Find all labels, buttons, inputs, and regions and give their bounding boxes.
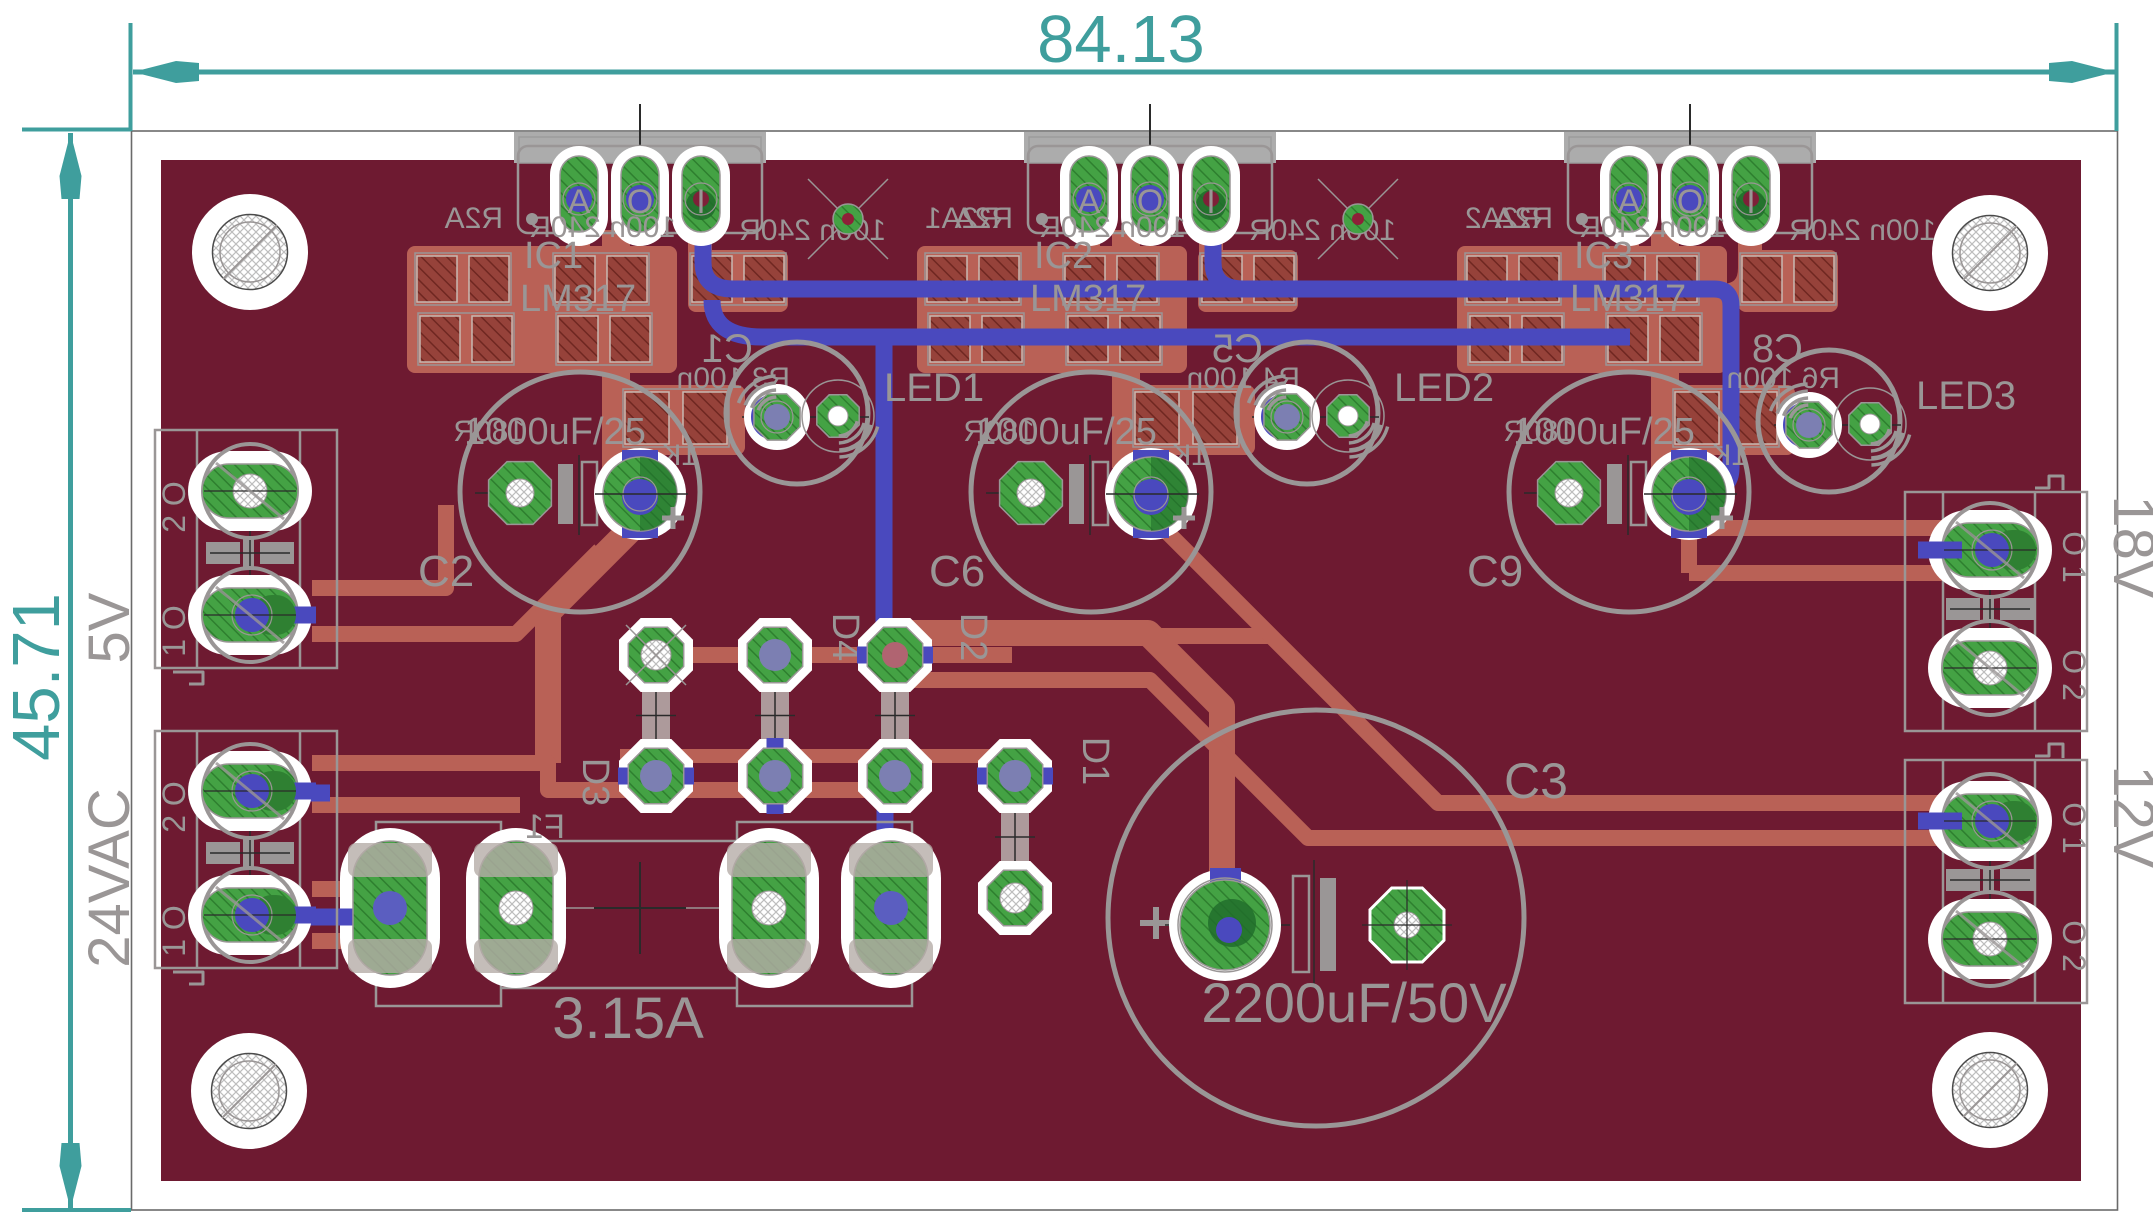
IC1 pin labels A O I	[568, 183, 706, 221]
svg-text:D1: D1	[1074, 737, 1116, 786]
C9 polarity marks	[1607, 455, 1646, 535]
wire C9+ stub down (top)	[1681, 500, 1697, 573]
12V bracket	[2035, 744, 2063, 758]
IC2 pin labels A O I	[1078, 183, 1216, 221]
24VAC pad 2	[188, 868, 316, 962]
LED1 reflector arcs	[739, 376, 878, 457]
via V2	[1318, 179, 1398, 259]
diode D4 body	[755, 677, 795, 754]
C6 polarity marks	[1069, 455, 1108, 535]
LED1 label	[884, 366, 984, 410]
wire 24VAC-2 stub b (top)	[312, 797, 520, 813]
IC2 pad A	[1070, 156, 1108, 232]
wire 12V pad1 stub	[1918, 813, 1992, 830]
svg-text:12V: 12V	[2101, 765, 2153, 869]
IC2 pad I	[1192, 156, 1230, 232]
connector label 12V	[2101, 765, 2153, 869]
diode D4 pad 1	[738, 618, 812, 692]
wire 24VAC-2 to fuse area a (top)	[312, 763, 886, 790]
LED3 anode pad	[1834, 388, 1906, 460]
wire 24VAC pad1 to fuse	[250, 909, 392, 926]
svg-text:LM317: LM317	[520, 278, 636, 320]
12V pin labels	[2056, 802, 2092, 972]
18V pad 1	[1924, 503, 2052, 597]
silk text R2A1 (mirrored)	[925, 202, 1000, 235]
horizontal dimension line 84.13	[133, 70, 2115, 75]
wire IC2 pad A stub (top)	[1078, 215, 1100, 258]
diode D2 body	[875, 677, 915, 754]
24VAC origin	[249, 829, 251, 877]
IC1 pad A	[560, 156, 598, 232]
diode D3 label	[574, 758, 616, 807]
12V pad 2	[1928, 892, 2052, 986]
IC1 pad O	[621, 156, 659, 232]
IC3 origin mark	[1689, 104, 1691, 168]
IC3 outline	[1568, 146, 1812, 233]
IC1 heatsink tab	[514, 132, 766, 163]
capacitor C2 outline circle	[460, 372, 700, 612]
capacitor C3 outline circle	[1108, 710, 1524, 1126]
wire bridge mid row (top)	[620, 749, 1008, 763]
IC2 value LM317	[1030, 278, 1146, 320]
wire bottom bus A IC1-out	[703, 233, 1731, 489]
wire IC2 pad I elbow (top)	[1211, 215, 1290, 296]
svg-text:1 O: 1 O	[156, 905, 192, 957]
wire D2 to C3+ (top, wide)	[905, 633, 1222, 890]
12V origin	[1989, 859, 1991, 901]
wire D3 bottom stub	[619, 768, 693, 785]
LED2 cathode pad	[1254, 384, 1320, 450]
silk text 180R IC2 (mirrored)	[963, 415, 1035, 448]
C3 plus symbol	[1140, 907, 1172, 939]
24VAC separator	[206, 839, 294, 867]
wire D1 top stub	[985, 768, 1048, 785]
copper patch under R/C cluster of IC3	[1457, 246, 1838, 455]
IC3 pad clearance	[1600, 146, 1780, 246]
diode D2 pad 2	[858, 739, 932, 813]
diode D3 body	[636, 677, 676, 754]
5V origin	[249, 529, 251, 577]
svg-text:100n 240R: 100n 240R	[529, 211, 676, 244]
C9 value 1000uF/25	[1513, 411, 1695, 453]
mounting hole top-right	[1932, 195, 2048, 311]
24VAC terminal outline	[155, 731, 337, 968]
IC3 value LM317	[1570, 278, 1686, 320]
IC2 outline	[1028, 146, 1272, 233]
via V1	[808, 179, 888, 259]
dimension extension line left (x)	[129, 23, 133, 131]
svg-text:3.15A: 3.15A	[552, 986, 704, 1051]
C6 value 1000uF/25	[975, 411, 1157, 453]
mounting hole bottom-left	[191, 1033, 307, 1149]
vertical dimension line 45.71	[68, 133, 73, 1209]
svg-text:1000uF/25: 1000uF/25	[464, 411, 646, 453]
svg-text:2 O: 2 O	[156, 781, 192, 833]
fuse F1 origin cross	[594, 862, 686, 954]
IC1 designator	[524, 235, 583, 277]
dimension extension line right (x)	[2115, 23, 2119, 131]
svg-text:100n 240R: 100n 240R	[1039, 211, 1186, 244]
dimension arrow up	[60, 133, 82, 199]
silk text 100n 240R right IC3 (mirrored)	[1789, 214, 1936, 247]
SMD pads 100n/240R cluster IC1	[415, 253, 786, 365]
24VAC pin labels	[156, 781, 192, 957]
18V pad 2	[1928, 621, 2052, 715]
silk text 100n 240R IC3 (mirrored)	[1579, 211, 1726, 244]
wire IC3 pad O to C9+ (top)	[1651, 230, 1679, 468]
IC2 pad O	[1131, 156, 1169, 232]
C6 positive pad	[1105, 448, 1199, 540]
SMD pads 100n/240R cluster IC2	[925, 253, 1296, 365]
silk text R2A2 (mirrored)	[1465, 202, 1540, 235]
svg-text:C8: C8	[1752, 327, 1803, 371]
dimension arrow right	[2049, 61, 2115, 83]
wire 24VAC-1 to fuse b (top)	[312, 933, 372, 949]
IC1 pad I	[682, 156, 720, 232]
silk text R2A IC2 (mirrored)	[955, 202, 1013, 235]
svg-text:C3: C3	[1504, 753, 1568, 809]
diode D2 label	[952, 613, 994, 662]
capacitor C6 outline circle	[971, 372, 1211, 612]
fuse pad 3	[719, 828, 819, 988]
fuse clip silk overlay	[348, 843, 933, 973]
svg-text:100n 240R: 100n 240R	[739, 214, 886, 247]
silk text C cap IC1 (mirrored)	[702, 327, 753, 371]
dimension label 45.71	[0, 593, 74, 761]
fuse F1 label (mirrored)	[525, 808, 565, 846]
wire C9+ to 18V lower (top)	[1689, 565, 1960, 581]
capacitor C9 outline circle	[1509, 372, 1749, 612]
svg-text:C9: C9	[1467, 547, 1523, 596]
silk text 100n 240R right IC2 (mirrored)	[1249, 214, 1396, 247]
C2 value 1000uF/25	[464, 411, 646, 453]
5V pin labels	[156, 481, 192, 657]
LED3 label	[1916, 374, 2016, 418]
silk text R3 100n IC1 (mirrored)	[677, 362, 790, 395]
C9 designator	[1467, 547, 1523, 596]
fuse pad 2	[466, 828, 566, 988]
copper patch under R/C cluster of IC1	[407, 246, 788, 455]
12V pad 1	[1924, 774, 2052, 868]
C9 positive pad	[1643, 448, 1737, 540]
connector label 24VAC	[77, 788, 142, 967]
diode D1 label	[1074, 737, 1116, 786]
5V separator	[206, 539, 294, 567]
silk text C cap IC2 (mirrored)	[1212, 327, 1263, 371]
LED2 anode pad	[1312, 380, 1384, 452]
wire IC1 pad I elbow (top)	[700, 215, 780, 296]
5V pad 2	[188, 568, 316, 662]
LED2 axis line	[1252, 416, 1379, 418]
dimension extension line bottom (y)	[22, 1208, 131, 1212]
IC3 pin labels A O I	[1618, 183, 1756, 221]
dimension extension line top (y)	[22, 128, 131, 132]
svg-text:F1: F1	[525, 808, 565, 846]
C6 designator	[929, 547, 985, 596]
diode D1 pad 2	[978, 861, 1052, 935]
diode D4 label	[824, 613, 866, 662]
wire C9+ to 18V upper (top)	[1700, 520, 1960, 536]
wire bottom to D2	[884, 337, 912, 655]
svg-text:100n 240R: 100n 240R	[1579, 211, 1726, 244]
IC1 value LM317	[520, 278, 636, 320]
IC3 pad I	[1732, 156, 1770, 232]
svg-text:C6: C6	[929, 547, 985, 596]
svg-text:100n 240R: 100n 240R	[1789, 214, 1936, 247]
diode D1 body	[995, 798, 1035, 876]
svg-text:O 1: O 1	[2056, 802, 2092, 854]
wire IC1 pad O to C2+ (top)	[602, 230, 630, 468]
IC1 origin mark	[639, 104, 641, 168]
svg-text:5V: 5V	[77, 592, 142, 663]
5V pad 1	[188, 444, 312, 538]
24VAC pad 1	[188, 744, 316, 838]
wire bridge top row (top)	[648, 647, 1012, 663]
IC3 pad A	[1610, 156, 1648, 232]
C2 negative pad	[475, 462, 552, 525]
svg-text:LED2: LED2	[1394, 366, 1494, 410]
LED3 axis line	[1774, 424, 1901, 426]
C6 negative pad	[986, 462, 1063, 525]
IC3 designator	[1574, 235, 1633, 277]
resistor pads near C5	[1133, 389, 1239, 447]
connector label 18V	[2101, 495, 2153, 599]
wire C6 feed left (top)	[952, 628, 1271, 644]
svg-text:1 O: 1 O	[156, 605, 192, 657]
C2 positive pad	[594, 448, 688, 540]
LED1 axis line	[742, 416, 869, 418]
wire C2+ down-left (top)	[548, 526, 634, 763]
LED1 outline	[726, 342, 868, 484]
wire 18V pad1 stub	[1918, 542, 1992, 559]
wire IC3 pad I elbow (top)	[1700, 215, 1750, 296]
svg-text:LM317: LM317	[1570, 278, 1686, 320]
C2 designator	[418, 547, 474, 596]
svg-text:84.13: 84.13	[1037, 2, 1205, 77]
IC1 outline	[518, 146, 762, 233]
svg-text:LED1: LED1	[884, 366, 984, 410]
svg-text:LED3: LED3	[1916, 374, 2016, 418]
silk text R2A IC1 (mirrored)	[445, 202, 503, 235]
wire IC2 pad O to C6+ (top)	[1112, 230, 1140, 468]
silk text R3 100n IC2 (mirrored)	[1187, 362, 1300, 395]
svg-text:D2: D2	[952, 613, 994, 662]
C3 axis line	[1165, 924, 1290, 926]
silk text C cap IC3 (mirrored)	[1752, 327, 1803, 371]
12V separator	[1946, 866, 2034, 894]
svg-text:2200uF/50V: 2200uF/50V	[1201, 971, 1507, 1034]
wire D4 bottom to fuse	[877, 776, 894, 860]
svg-text:R2A: R2A	[445, 202, 503, 235]
18V origin	[1989, 588, 1991, 630]
silk text 100n 240R IC1 (mirrored)	[529, 211, 676, 244]
wire IC3 pad A stub (top)	[1617, 215, 1639, 258]
resistor pads near C2	[623, 389, 729, 447]
5V bracket	[173, 672, 203, 684]
fuse F1 rating	[552, 986, 704, 1051]
IC2 pad clearance	[1060, 146, 1240, 246]
svg-text:100n 240R: 100n 240R	[1249, 214, 1396, 247]
svg-text:R2A2: R2A2	[1465, 202, 1540, 235]
copper patch under R/C cluster of IC2	[917, 246, 1298, 455]
fuse pad 1	[340, 828, 440, 988]
wire 5V pad1 stub	[250, 607, 311, 624]
svg-text:I: I	[1746, 183, 1755, 221]
silk text 1K IC1 (mirrored)	[661, 439, 698, 472]
svg-text:O 2: O 2	[2056, 920, 2092, 972]
LED3 reflector arcs	[1771, 384, 1910, 465]
LED3 outline	[1758, 350, 1900, 492]
18V pin labels	[2056, 531, 2092, 701]
mounting hole top-left	[192, 194, 308, 310]
wire diode to 12V lower (top)	[912, 680, 1960, 838]
5V terminal outline	[155, 430, 337, 668]
IC2 origin mark	[1149, 104, 1151, 168]
silk text R3 100n IC3 (mirrored)	[1727, 362, 1840, 395]
SMD pads 100n/240R cluster IC3	[1465, 253, 1836, 365]
svg-text:I: I	[696, 183, 705, 221]
wire 24VAC pad2 stub	[250, 785, 330, 802]
svg-text:D3: D3	[574, 758, 616, 807]
IC1 pad clearance	[550, 146, 730, 246]
svg-text:C2: C2	[418, 547, 474, 596]
dimension arrow down	[60, 1143, 82, 1209]
silk text 1K IC3 (mirrored)	[1711, 439, 1748, 472]
copper ground pour (both layers overlapped)	[161, 160, 2081, 1181]
wire bottom bus B	[712, 300, 1630, 337]
C3 designator	[1504, 753, 1568, 809]
svg-text:45.71: 45.71	[0, 593, 74, 761]
wire bottom IC2 elbow	[1213, 233, 1243, 289]
silk text 1K IC2 (mirrored)	[1171, 439, 1208, 472]
C3 positive pad	[1169, 868, 1281, 981]
silk text 180R IC3 (mirrored)	[1503, 415, 1575, 448]
LED3 cathode pad	[1776, 392, 1842, 458]
svg-text:I: I	[1206, 183, 1215, 221]
12V terminal outline	[1905, 760, 2087, 1003]
18V bracket	[2035, 476, 2063, 490]
C9 negative pad	[1524, 462, 1601, 525]
silk text R2A IC3 (mirrored)	[1495, 202, 1553, 235]
diode D3 pad 1	[619, 618, 693, 692]
diode D4 pad 2	[738, 738, 812, 814]
18V terminal outline	[1905, 492, 2087, 731]
svg-text:24VAC: 24VAC	[77, 788, 142, 967]
resistor pads near C8	[1673, 389, 1779, 447]
IC3 pad O	[1671, 156, 1709, 232]
IC3 heatsink tab	[1564, 132, 1816, 163]
IC2 heatsink tab	[1024, 132, 1276, 163]
wire IC1 pad A stub (top)	[568, 215, 590, 258]
LED1 cathode pad	[744, 384, 810, 450]
svg-text:18V: 18V	[2101, 495, 2153, 599]
dimension label 84.13	[1037, 2, 1205, 77]
wire 5V out to C2- (top)	[312, 505, 446, 588]
LED2 reflector arcs	[1249, 376, 1388, 457]
C2 polarity marks	[558, 455, 597, 535]
svg-text:O 1: O 1	[2056, 531, 2092, 583]
LED1 anode pad	[802, 380, 874, 452]
silk text 100n 240R IC2 (mirrored)	[1039, 211, 1186, 244]
LED2 outline	[1236, 342, 1378, 484]
diode D1 pad 1	[977, 739, 1053, 813]
24VAC bracket	[173, 972, 203, 984]
wire 24VAC-1 to fuse a (top)	[312, 881, 372, 897]
svg-text:2 O: 2 O	[156, 481, 192, 533]
IC2 designator	[1034, 235, 1093, 277]
svg-text:R2A1: R2A1	[925, 202, 1000, 235]
svg-text:1000uF/25: 1000uF/25	[1513, 411, 1695, 453]
18V separator	[1946, 595, 2034, 623]
wire C6+ to 12V upper (top)	[1151, 516, 1960, 803]
svg-text:LM317: LM317	[1030, 278, 1146, 320]
fuse F1 clip outlines	[376, 822, 912, 1006]
diode D2 pad 1	[857, 618, 933, 692]
C3 negative pad	[1362, 880, 1452, 970]
dimension arrow left	[133, 61, 199, 83]
C3 value	[1201, 971, 1507, 1034]
diode D3 pad 2	[618, 739, 694, 813]
wire 5V out to C2+ (top)	[312, 550, 600, 634]
LED2 label	[1394, 366, 1494, 410]
mounting hole bottom-right	[1932, 1032, 2048, 1148]
connector label 5V	[77, 592, 142, 663]
C3 polarity marks	[1293, 860, 1336, 988]
silk text 100n 240R right IC1 (mirrored)	[739, 214, 886, 247]
svg-text:1000uF/25: 1000uF/25	[975, 411, 1157, 453]
svg-text:O 2: O 2	[2056, 649, 2092, 701]
fuse pad 4	[841, 828, 941, 988]
silk text 180R IC1 (mirrored)	[453, 415, 525, 448]
